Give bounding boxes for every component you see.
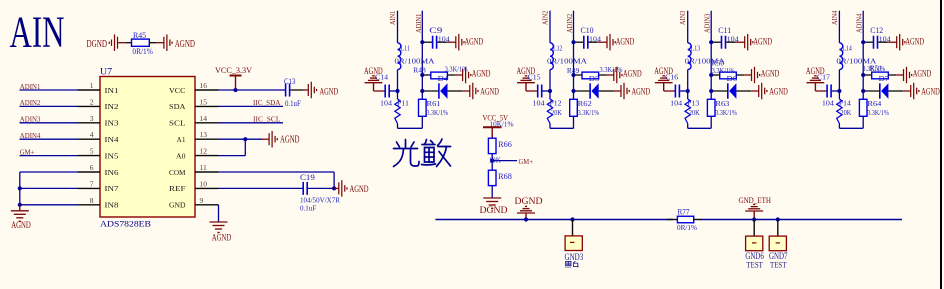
- svg-text:AGND: AGND: [905, 37, 924, 47]
- svg-text:11: 11: [200, 163, 207, 172]
- svg-text:TEST: TEST: [770, 260, 787, 270]
- svg-text:20K: 20K: [689, 108, 700, 117]
- svg-text:ADIN2: ADIN2: [20, 99, 41, 107]
- svg-text:TEST: TEST: [746, 260, 763, 270]
- svg-text:R45: R45: [133, 30, 146, 40]
- svg-text:104: 104: [727, 34, 739, 43]
- svg-text:0.1uF: 0.1uF: [285, 99, 301, 108]
- svg-text:COM: COM: [169, 168, 186, 177]
- svg-text:ADIN3: ADIN3: [704, 13, 712, 33]
- svg-text:AGND: AGND: [921, 86, 940, 96]
- svg-text:IN2: IN2: [105, 102, 119, 111]
- svg-text:ADS7828EB: ADS7828EB: [100, 218, 151, 228]
- svg-text:AGND: AGND: [632, 86, 651, 96]
- svg-text:D6: D6: [727, 74, 738, 83]
- svg-text:10: 10: [200, 179, 208, 188]
- svg-text:14: 14: [200, 114, 208, 123]
- svg-text:R68: R68: [498, 172, 512, 181]
- svg-text:104: 104: [822, 99, 834, 108]
- svg-text:ADIN1: ADIN1: [415, 13, 423, 33]
- svg-text:IN5: IN5: [105, 151, 119, 160]
- svg-text:R49: R49: [567, 66, 580, 75]
- svg-text:C15: C15: [528, 72, 541, 81]
- svg-text:104: 104: [879, 34, 891, 43]
- svg-text:GM+: GM+: [519, 157, 534, 166]
- svg-text:D4: D4: [438, 74, 449, 83]
- svg-text:AGND: AGND: [761, 68, 780, 78]
- svg-text:0.1uF: 0.1uF: [300, 203, 316, 212]
- svg-text:0R/100MA: 0R/100MA: [395, 57, 436, 66]
- svg-text:IIC_SCL: IIC_SCL: [253, 115, 281, 124]
- svg-text:VCC: VCC: [169, 86, 186, 95]
- svg-text:U7: U7: [100, 67, 113, 77]
- svg-text:D5: D5: [589, 74, 600, 83]
- svg-text:2: 2: [90, 97, 94, 106]
- svg-text:ADIN4: ADIN4: [20, 132, 41, 140]
- svg-text:A0: A0: [176, 151, 186, 160]
- svg-text:C17: C17: [817, 72, 830, 81]
- svg-text:7: 7: [90, 179, 94, 188]
- svg-text:13: 13: [200, 130, 208, 139]
- svg-text:IN7: IN7: [105, 184, 119, 193]
- svg-text:P13: P13: [687, 99, 699, 108]
- svg-text:GM+: GM+: [20, 148, 35, 156]
- svg-text:3.3K/1%: 3.3K/1%: [427, 108, 449, 117]
- svg-text:104: 104: [438, 34, 450, 43]
- svg-text:3: 3: [90, 114, 94, 123]
- svg-text:L12: L12: [553, 43, 563, 52]
- svg-text:3.3K/1%: 3.3K/1%: [862, 64, 885, 73]
- svg-text:0R/100MA: 0R/100MA: [547, 57, 588, 66]
- svg-text:104: 104: [670, 99, 682, 108]
- svg-text:DGND: DGND: [515, 196, 544, 206]
- svg-text:SCL: SCL: [169, 119, 186, 128]
- svg-text:D7: D7: [879, 74, 890, 83]
- svg-text:AGND: AGND: [11, 221, 31, 231]
- svg-text:AGND: AGND: [769, 86, 788, 96]
- svg-text:IN1: IN1: [105, 86, 119, 95]
- svg-text:AIN4: AIN4: [831, 10, 839, 25]
- svg-text:20K: 20K: [551, 108, 562, 117]
- svg-text:C14: C14: [375, 72, 388, 81]
- svg-text:AGND: AGND: [480, 86, 499, 96]
- svg-text:P12: P12: [550, 99, 562, 108]
- svg-text:AGND: AGND: [465, 37, 484, 47]
- svg-text:3.3K/1%: 3.3K/1%: [578, 108, 600, 117]
- svg-text:104: 104: [380, 99, 392, 108]
- svg-text:0R/1%: 0R/1%: [132, 46, 153, 56]
- svg-text:L11: L11: [401, 43, 411, 52]
- svg-text:AGND: AGND: [616, 37, 635, 47]
- svg-text:AGND: AGND: [280, 135, 300, 146]
- svg-text:AGND: AGND: [320, 87, 339, 97]
- svg-text:16: 16: [200, 81, 208, 90]
- svg-text:DGND: DGND: [87, 38, 108, 50]
- svg-text:ADIN4: ADIN4: [856, 13, 864, 33]
- svg-text:GND: GND: [169, 201, 186, 210]
- svg-text:ADIN2: ADIN2: [566, 13, 574, 33]
- svg-text:C13: C13: [284, 77, 296, 86]
- svg-text:ADIN1: ADIN1: [20, 83, 41, 91]
- svg-text:10K: 10K: [489, 155, 502, 164]
- svg-text:8: 8: [90, 196, 94, 205]
- svg-text:R77: R77: [678, 208, 690, 217]
- svg-text:3.3K/1%: 3.3K/1%: [867, 108, 889, 117]
- svg-text:IN6: IN6: [105, 168, 119, 177]
- svg-text:AIN2: AIN2: [542, 10, 550, 25]
- svg-text:3.3K/1%: 3.3K/1%: [600, 65, 623, 74]
- svg-text:AIN1: AIN1: [389, 10, 397, 25]
- svg-text:R48: R48: [413, 66, 426, 75]
- svg-text:L13: L13: [691, 43, 701, 52]
- svg-text:3.3K/1%: 3.3K/1%: [715, 108, 737, 117]
- svg-text:GND3: GND3: [565, 252, 584, 262]
- svg-text:12: 12: [200, 147, 208, 156]
- svg-text:AGND: AGND: [212, 234, 232, 244]
- svg-text:IIC_SDA: IIC_SDA: [253, 98, 281, 107]
- svg-text:C16: C16: [665, 72, 678, 81]
- svg-text:IN3: IN3: [105, 119, 119, 128]
- svg-text:3.3K/1%: 3.3K/1%: [445, 64, 468, 73]
- svg-text:AGND: AGND: [350, 184, 369, 194]
- svg-text:104: 104: [533, 99, 545, 108]
- svg-text:SDA: SDA: [169, 102, 186, 111]
- svg-text:C19: C19: [300, 173, 315, 182]
- svg-text:0R/1%: 0R/1%: [677, 223, 697, 232]
- svg-text:5: 5: [90, 147, 94, 156]
- svg-text:DGND: DGND: [480, 205, 509, 215]
- svg-text:AGND: AGND: [623, 68, 642, 78]
- svg-text:4: 4: [90, 130, 94, 139]
- svg-text:P11: P11: [397, 99, 409, 108]
- svg-text:R66: R66: [498, 140, 512, 149]
- svg-text:AGND: AGND: [175, 38, 195, 50]
- svg-text:AIN3: AIN3: [679, 10, 687, 25]
- svg-text:AGND: AGND: [913, 68, 932, 78]
- svg-text:1: 1: [90, 81, 94, 90]
- svg-text:P14: P14: [839, 99, 851, 108]
- svg-text:15: 15: [200, 97, 208, 106]
- svg-text:IN8: IN8: [105, 201, 119, 210]
- svg-text:ADIN3: ADIN3: [20, 116, 41, 124]
- svg-text:20K: 20K: [840, 108, 851, 117]
- svg-text:AGND: AGND: [472, 68, 491, 78]
- svg-text:6: 6: [90, 163, 94, 172]
- svg-text:AIN: AIN: [10, 8, 65, 57]
- svg-text:A1: A1: [177, 135, 186, 144]
- svg-text:AGND: AGND: [753, 37, 772, 47]
- svg-text:104: 104: [589, 34, 601, 43]
- svg-text:IN4: IN4: [105, 135, 119, 144]
- svg-text:VCC_3.3V: VCC_3.3V: [215, 66, 252, 75]
- svg-text:L14: L14: [842, 43, 852, 52]
- svg-text:9: 9: [200, 196, 204, 205]
- svg-text:REF: REF: [169, 184, 186, 193]
